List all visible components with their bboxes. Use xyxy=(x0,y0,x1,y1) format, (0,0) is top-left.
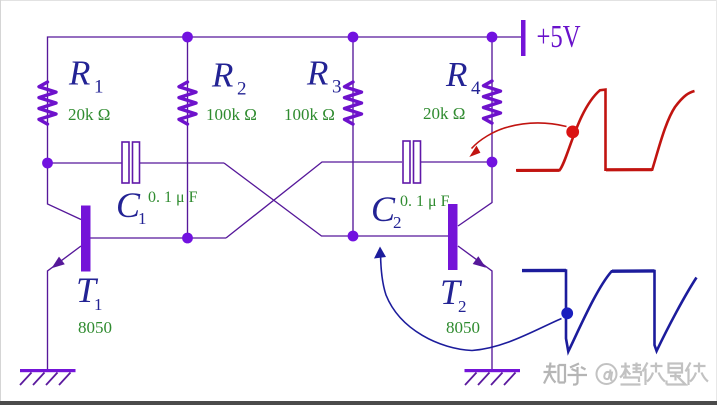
transistor T2 emitter arrow xyxy=(473,256,486,268)
blue base waveform xyxy=(522,271,697,352)
wire R3 vertical xyxy=(352,37,354,236)
label C1 xyxy=(116,185,147,228)
transistor T1 base bar xyxy=(81,206,91,272)
resistor R3 xyxy=(345,82,362,124)
label C2 xyxy=(371,189,402,232)
svg-text:0. 1 μ F: 0. 1 μ F xyxy=(400,193,450,210)
blue arrow to base node xyxy=(374,247,562,351)
+5V battery bar xyxy=(521,20,526,56)
capacitor C2 plates xyxy=(403,141,421,183)
transistor T1 emitter arrow xyxy=(52,257,65,269)
wire R4 vertical xyxy=(491,37,493,162)
capacitor C1 plates xyxy=(122,142,140,183)
wire C1 to diagonal xyxy=(140,162,225,164)
svg-text:1: 1 xyxy=(138,209,147,228)
svg-text:2: 2 xyxy=(458,297,467,316)
svg-text:8050: 8050 xyxy=(78,318,112,337)
label R2 xyxy=(211,56,247,100)
svg-text:R: R xyxy=(68,54,90,93)
wire T2 collector xyxy=(458,162,492,226)
ground left xyxy=(20,369,76,385)
label R4 xyxy=(445,55,481,99)
node dot R4 top xyxy=(487,32,498,43)
transistor T2 base bar xyxy=(448,204,458,270)
wire diagonal C1 to T2 base xyxy=(224,163,448,236)
wire R2 vertical xyxy=(187,37,189,238)
svg-text:+5V: +5V xyxy=(537,18,581,54)
blue probe dot xyxy=(561,307,573,319)
wire C2 to node xyxy=(420,161,492,163)
svg-text:2: 2 xyxy=(393,213,402,232)
svg-text:R: R xyxy=(445,55,467,94)
node dot T2 base xyxy=(348,231,359,242)
resistor R2 xyxy=(179,82,196,124)
svg-text:2: 2 xyxy=(237,79,247,100)
label T2 xyxy=(440,272,467,316)
ground right xyxy=(465,369,521,385)
wire T1 emitter lead xyxy=(48,246,82,369)
svg-text:20k Ω: 20k Ω xyxy=(68,105,110,124)
label T1 xyxy=(76,270,103,314)
wire T1 collector xyxy=(48,163,82,220)
wire top rail +5V to R1 xyxy=(48,37,522,163)
wire T1 base xyxy=(91,237,227,239)
label R1 xyxy=(68,54,104,98)
node dot R3 top xyxy=(348,32,359,43)
watermark name chars xyxy=(620,363,708,386)
svg-text:3: 3 xyxy=(332,77,342,98)
svg-text:8050: 8050 xyxy=(446,318,480,337)
svg-text:R: R xyxy=(211,56,233,95)
red probe dot xyxy=(566,125,579,138)
svg-text:4: 4 xyxy=(471,78,481,99)
wire T2 emitter lead xyxy=(458,246,492,369)
blue wave flat overlay xyxy=(522,269,655,273)
resistor R4 xyxy=(484,81,501,123)
svg-text:R: R xyxy=(306,54,328,93)
red arrow to collector node xyxy=(469,123,566,157)
svg-text:20k Ω: 20k Ω xyxy=(423,104,465,123)
red collector waveform xyxy=(516,90,695,171)
red wave flat overlay xyxy=(517,168,653,172)
wire left horizontal C1 xyxy=(48,162,123,164)
svg-text:0. 1 μ F: 0. 1 μ F xyxy=(148,189,198,206)
svg-text:100k Ω: 100k Ω xyxy=(284,105,335,124)
wire diagonal T1 base to C2 xyxy=(226,162,402,238)
svg-text:1: 1 xyxy=(94,295,103,314)
resistor R1 xyxy=(39,82,56,124)
watermark @ sign xyxy=(597,364,617,384)
watermark zhihu logo text xyxy=(544,363,588,385)
svg-text:100k Ω: 100k Ω xyxy=(206,105,257,124)
label R3 xyxy=(306,54,342,98)
node dot R2 top xyxy=(182,32,193,43)
svg-text:1: 1 xyxy=(94,77,104,98)
node dot R1 bottom xyxy=(42,158,53,169)
node dot T1 base xyxy=(182,233,193,244)
node dot T2 collector xyxy=(487,157,498,168)
